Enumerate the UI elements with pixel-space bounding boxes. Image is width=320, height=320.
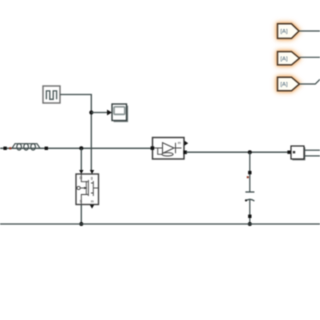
measurement block bbox=[291, 146, 305, 160]
svg-text:[A]: [A] bbox=[280, 82, 288, 88]
inductor L bbox=[12, 144, 40, 150]
node capacitor bottom terminal bbox=[248, 215, 251, 218]
node diode anode terminal bbox=[151, 146, 155, 150]
goto tag A2 bbox=[278, 52, 300, 65]
svg-text:D: D bbox=[80, 176, 83, 180]
svg-text:[A]: [A] bbox=[280, 29, 288, 35]
goto tag A3 bbox=[278, 77, 300, 91]
node diode cathode terminal bbox=[183, 151, 187, 155]
node inductor right terminal bbox=[45, 147, 48, 150]
node junction drain bbox=[79, 146, 83, 150]
node capacitor polarity mark (red) bbox=[247, 176, 249, 178]
svg-text:m: m bbox=[178, 141, 181, 145]
pulse generator bbox=[43, 86, 60, 103]
wire from tag A1 bbox=[299, 30, 320, 32]
diode m port arrow (unconnected) bbox=[185, 141, 189, 146]
node junction gate/scope bbox=[89, 111, 93, 115]
wire main top-left bus bbox=[0, 147, 152, 149]
wire gate arrowhead bbox=[90, 170, 94, 174]
node measurement input terminal bbox=[287, 151, 290, 154]
goto tag A1 bbox=[278, 24, 300, 39]
svg-text:[A]: [A] bbox=[280, 56, 288, 62]
svg-text:m: m bbox=[91, 200, 94, 204]
wire drain drop bbox=[79, 148, 83, 174]
node capacitor bottom plate dot bbox=[245, 199, 247, 201]
mosfet block Q bbox=[76, 174, 99, 205]
goto tag A3 label bbox=[280, 82, 288, 88]
node junction capacitor top bbox=[248, 150, 252, 154]
wire from tag A3 bbox=[300, 79, 320, 84]
node polarity mark (red) bbox=[9, 147, 11, 149]
mosfet m port arrow (unconnected) bbox=[90, 205, 94, 209]
wire top-right bus bbox=[186, 151, 289, 153]
scope block bbox=[112, 104, 128, 122]
node input terminal bbox=[3, 147, 6, 150]
node capacitor top terminal bbox=[248, 171, 251, 174]
wire branch to scope bbox=[91, 110, 112, 116]
node junction source/bus bbox=[79, 222, 83, 226]
goto tag A1 label bbox=[280, 29, 288, 35]
svg-text:g: g bbox=[91, 176, 93, 180]
wire pulse generator to gate bbox=[60, 95, 91, 171]
wire from tag A2 bbox=[300, 56, 320, 58]
goto tag A2 label bbox=[280, 56, 288, 62]
wire ground bus bbox=[0, 223, 320, 225]
wire measurement outputs bbox=[304, 150, 320, 156]
diode block D bbox=[153, 138, 185, 160]
wire source to ground bus bbox=[80, 205, 82, 225]
wire capacitor top lead bbox=[249, 152, 251, 192]
node junction capacitor bottom bbox=[248, 222, 252, 226]
wire capacitor bottom lead bbox=[249, 200, 251, 224]
capacitor C bbox=[245, 192, 254, 201]
